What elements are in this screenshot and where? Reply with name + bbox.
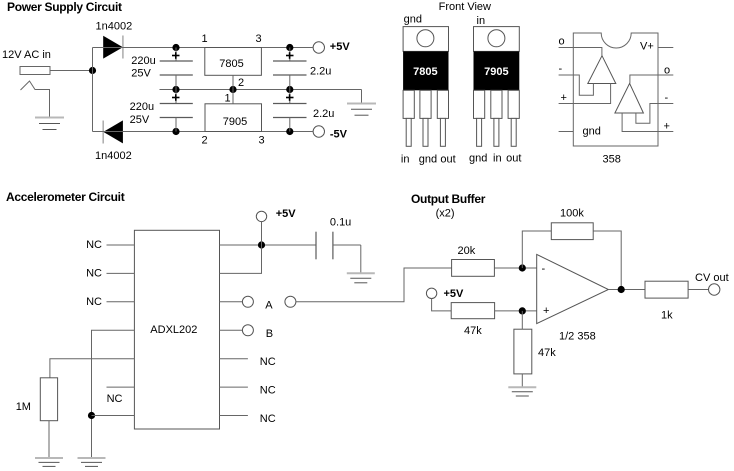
svg-text:NC: NC [260,413,276,425]
svg-text:+: + [543,305,549,317]
terminal CV out circle [709,284,720,295]
svg-text:1: 1 [225,93,231,105]
pin 7805 narrow 1 [406,118,411,146]
terminal +5V buffer circle [426,288,436,298]
terminal A out circle 2 [285,296,296,307]
svg-text:Accelerometer Circuit: Accelerometer Circuit [6,190,125,204]
node mid rail dot reg [229,86,236,93]
svg-text:220u: 220u [130,101,154,113]
resistor R3 47k [451,303,494,319]
svg-text:out: out [440,154,455,166]
svg-text:o: o [559,36,565,48]
wire U3 in1+ [573,84,610,104]
svg-text:+5V: +5V [444,288,465,300]
resistor R2 20k [452,260,495,277]
svg-text:V+: V+ [640,41,654,53]
pin 7905 narrow 3 [511,118,516,146]
svg-text:1: 1 [202,33,208,45]
ground jack [35,118,64,130]
wire gnd rail drop [361,90,363,104]
svg-text:NC: NC [260,384,276,396]
svg-text:+5V: +5V [276,208,297,220]
wire feedback down [593,231,621,290]
pin stub U4 NC right 3 [220,415,248,417]
wire +V rail top [93,47,313,49]
node +5V dot [258,241,265,248]
ground R4 [508,387,536,396]
svg-text:1/2 358: 1/2 358 [559,331,596,343]
pin 7805 narrow 2 [423,118,428,146]
ground ADXL [78,458,106,466]
svg-text:gnd: gnd [469,153,487,165]
node left gnd dot [88,412,95,419]
wire +5V up [261,222,263,245]
pin 7805 wide 3 [437,90,448,118]
capacitor C5 0.1u [316,232,361,273]
node top rail dot C2 [286,44,293,51]
wire U4 left row4 to ground [92,330,135,457]
svg-text:-: - [665,92,669,104]
pin 7905 narrow 2 [494,118,499,146]
wire feedback up [522,231,551,268]
terminal +5V circle [313,42,324,53]
pin stub U3 6 [658,103,673,105]
svg-text:358: 358 [603,154,621,166]
capacitor C3 220u 25V lower [160,90,193,132]
node output dot [618,286,625,293]
wire U2 pin1 [232,90,234,104]
svg-text:-5V: -5V [330,129,348,141]
wire U4 right row1 to +5V [220,244,317,246]
svg-text:3: 3 [259,135,265,147]
svg-text:in: in [477,15,486,27]
wire U4 left row7 [92,415,135,417]
pin stub U3 1 [559,47,574,49]
svg-text:-: - [559,63,563,75]
package 7805 body [403,51,448,90]
svg-text:Power Supply Circuit: Power Supply Circuit [7,0,122,14]
terminal -5V circle [313,126,324,137]
svg-text:7905: 7905 [484,66,508,78]
ground 0.1u [347,273,375,283]
pin 7905 narrow 1 [477,118,482,146]
svg-text:NC: NC [107,393,123,405]
wire R4 to ground [521,374,523,387]
terminal +5V accel circle [256,211,266,221]
node inv input dot [519,264,526,271]
pin stub U4 NC left row6 [107,386,135,388]
ground mid rail [347,104,376,116]
wire U3 in1- [573,75,593,95]
svg-text:o: o [664,65,670,77]
connector J1 sleeve hook [21,81,50,118]
resistor R5 100k [551,223,593,240]
svg-text:Output Buffer: Output Buffer [411,192,486,206]
ground 1M [35,458,63,466]
wire -V rail bottom [93,131,313,133]
terminal B circle [242,325,253,336]
svg-text:NC: NC [86,268,102,280]
svg-text:(x2): (x2) [436,208,455,220]
IC U4 ADXL202 box [134,230,219,429]
wire +5V to 47k [432,299,452,311]
pin stub U4 B out [220,329,243,331]
terminal A circle [242,296,253,307]
pin 7905 wide 3 [508,90,519,118]
wire 1k to CV out [688,289,709,291]
svg-text:NC: NC [260,356,276,368]
node top rail dot C1 [172,44,179,51]
svg-text:ADXL202: ADXL202 [150,324,197,336]
pin stub U3 5 [658,131,673,133]
IC U3 358 DIP outline with notch [573,33,658,146]
resistor R4 47k vertical [514,329,532,374]
resistor R1 1M [40,378,57,421]
capacitor C1 220u 25V [160,48,193,90]
wire AC input to node [50,70,93,72]
svg-text:CV out: CV out [695,272,729,284]
package 7905 tab [474,27,520,52]
pin stub U4 NC right 1 [220,358,248,360]
package 7805 hole [417,30,434,47]
node AC junction dot [89,67,96,74]
node bottom rail dot C4 [286,128,293,135]
resistor R6 1k [645,281,688,298]
svg-text:out: out [506,153,521,165]
pin stub U3 2 [559,74,574,76]
pin 7805 narrow 3 [440,118,445,146]
svg-text:gnd: gnd [404,14,422,26]
svg-text:A: A [265,299,273,311]
wire U3 in2- [636,104,658,124]
pin stub U4 NC left 3 [107,301,135,303]
svg-text:220u: 220u [131,55,155,67]
pin stub U3 7 [658,74,673,76]
wire 20k to inv input [494,267,536,269]
pin 7805 wide 2 [420,90,431,118]
svg-text:3: 3 [256,33,262,45]
regulator U1 7805 box [205,48,262,76]
wire U3 in2+ [622,113,658,132]
pin stub U3 4 [559,131,574,133]
svg-text:47k: 47k [464,325,482,337]
wire U4 right row2 join [220,245,262,273]
svg-text:25V: 25V [131,68,151,80]
node bottom rail dot C3 [172,128,179,135]
pin stub U4 NC right 2 [220,386,248,388]
svg-text:Front View: Front View [439,1,491,13]
connector J1 jack tip [20,67,50,75]
op-amp U5 triangle [537,254,609,323]
capacitor C4 2.2u lower [273,90,307,132]
wire vertical AC node [92,48,94,132]
wire U1 pin2 [232,75,234,89]
op-amp B triangle [615,83,644,113]
wire 47k to noninv input [495,310,537,312]
svg-text:2: 2 [238,77,244,89]
wire gnd rail middle [160,89,362,91]
svg-text:in: in [401,154,410,166]
wire R1 to ground [48,421,50,458]
diode D2 1n4002 bottom [103,120,123,143]
svg-text:+: + [561,92,567,104]
svg-text:1k: 1k [661,310,673,322]
svg-text:7905: 7905 [223,116,247,128]
svg-text:-: - [542,263,546,275]
node mid rail dot C1 [172,86,179,93]
svg-text:100k: 100k [560,208,584,220]
svg-text:gnd: gnd [583,126,601,138]
svg-text:in: in [493,153,502,165]
diode D1 1n4002 top [103,36,123,59]
regulator U2 7905 box [205,104,262,132]
svg-text:2.2u: 2.2u [313,108,334,120]
wire U4 left row5 to 1M [50,359,134,378]
svg-text:gnd: gnd [419,154,437,166]
node noninv dot [519,307,526,314]
svg-text:+5V: +5V [330,41,351,53]
svg-text:NC: NC [86,296,102,308]
svg-text:25V: 25V [130,114,150,126]
pin stub U4 NC left 2 [107,272,135,274]
op-amp A triangle [588,56,616,84]
pin 7905 wide 1 [474,90,485,118]
wire U3 out1 [573,48,602,56]
svg-text:7805: 7805 [219,58,243,70]
svg-text:0.1u: 0.1u [330,217,351,229]
svg-text:12V AC in: 12V AC in [2,49,51,61]
wire output [608,289,645,291]
svg-text:1M: 1M [16,401,31,413]
pin stub U3 3 [559,103,574,105]
svg-text:7805: 7805 [413,66,437,78]
svg-text:+: + [664,121,670,133]
wire A to buffer [296,268,452,302]
pin 7805 wide 1 [403,90,414,118]
pin stub U3 8 [658,47,673,49]
svg-text:20k: 20k [458,245,476,257]
svg-text:2.2u: 2.2u [310,66,331,78]
svg-text:2: 2 [202,135,208,147]
svg-text:B: B [266,328,273,340]
wire U3 out2 [630,75,658,83]
node mid rail dot C2 [286,86,293,93]
package 7905 body [474,51,520,90]
svg-text:NC: NC [86,239,102,251]
wire noninv to R4 [521,311,523,329]
package 7905 hole [488,30,505,47]
pin 7905 wide 2 [491,90,502,118]
capacitor C2 2.2u upper [273,48,307,90]
pin stub U4 NC left 1 [107,244,135,246]
svg-text:1n4002: 1n4002 [95,150,132,162]
svg-text:47k: 47k [538,347,556,359]
pin stub U4 A out [220,301,243,303]
package 7805 tab [403,27,448,52]
svg-text:1n4002: 1n4002 [96,21,133,33]
